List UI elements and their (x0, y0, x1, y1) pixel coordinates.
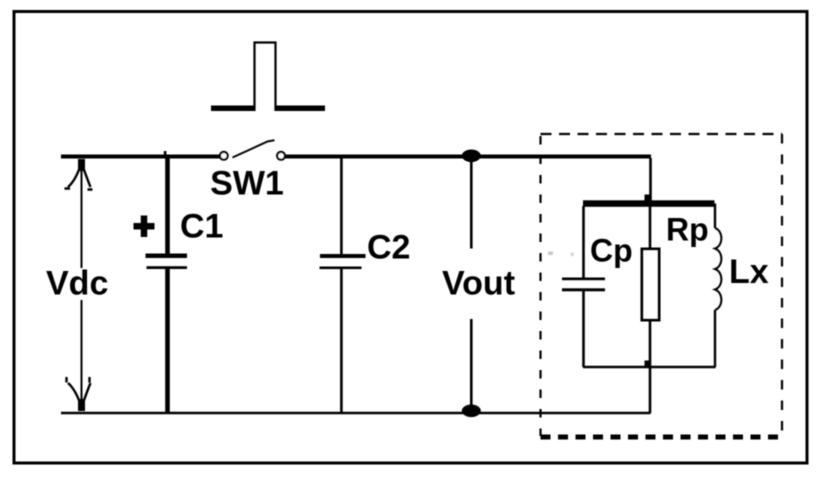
polarity + for C1 (134, 216, 155, 238)
svg-text:C1: C1 (180, 208, 223, 246)
capacitor C1 (electrolytic) (146, 158, 188, 413)
voltage arrow Vdc (double-headed dimension arrow) (65, 159, 93, 411)
svg-text:Cp: Cp (590, 233, 633, 269)
pulse waveform symbol (trigger pulse above SW1) (211, 43, 325, 112)
resistor Rp (642, 206, 659, 367)
svg-text:Lx: Lx (729, 253, 769, 291)
switch SW1 (220, 140, 285, 160)
wire: bottom bus of parallel network (583, 366, 716, 369)
svg-text:C2: C2 (367, 229, 410, 267)
crystal equivalent circuit dashed box (541, 134, 783, 437)
junction node: Vout bottom (462, 405, 481, 418)
svg-text:SW1: SW1 (210, 165, 284, 203)
label Rp (666, 212, 709, 248)
wire: drop from top rail into crystal network (649, 158, 652, 201)
junction: tick where C1 joins top rail (164, 151, 167, 156)
wire: top rail right segment (SW1 to crystal box) (285, 155, 651, 159)
label SW1 (210, 165, 284, 203)
faint scan marks left of Cp (548, 252, 574, 257)
junction: tick where drop wire meets top bus bar (645, 195, 651, 201)
label Vout (442, 265, 515, 303)
capacitor Cp (562, 206, 605, 367)
label C2 (367, 229, 410, 267)
junction node: Vout top (462, 150, 481, 163)
label Lx (729, 253, 769, 291)
wire: top rail left segment (Vdc plus to SW1) (61, 155, 220, 159)
svg-text:Vout: Vout (442, 265, 515, 303)
label Cp (590, 233, 633, 269)
wire: drop from bottom bus to ground rail (649, 367, 652, 413)
svg-text:Rp: Rp (666, 212, 709, 248)
label Vdc (46, 265, 108, 303)
junction: tick where Rp branch meets bottom bus (645, 361, 651, 367)
capacitor C2 (320, 158, 366, 413)
wire: bottom ground rail (61, 412, 651, 415)
wire: Vout measurement line (470, 158, 473, 410)
wire: thick top bus bar of parallel network (583, 200, 715, 207)
label C1 (180, 208, 223, 246)
svg-text:Vdc: Vdc (46, 265, 108, 303)
inductor Lx (715, 204, 721, 368)
